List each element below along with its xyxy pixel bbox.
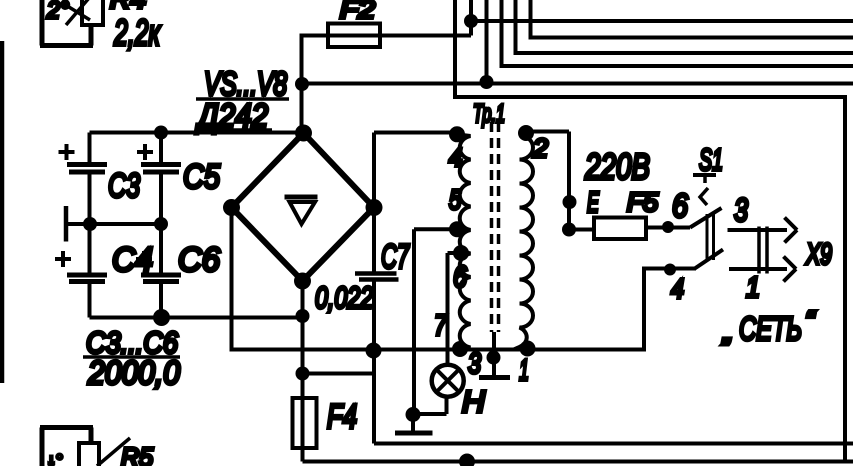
fraction line <box>83 355 180 359</box>
svg-text:3: 3 <box>734 192 748 228</box>
pin 5 dot <box>449 221 465 237</box>
transformer core dashed lines <box>492 122 499 332</box>
svg-text:С3: С3 <box>108 167 140 205</box>
junction dot bridge left <box>223 199 240 216</box>
resistor R5 arrow <box>97 438 130 466</box>
svg-text:0,022: 0,022 <box>315 280 373 315</box>
svg-text:Е: Е <box>587 187 599 219</box>
capacitor C5 plates <box>141 165 181 173</box>
svg-text:F2: F2 <box>340 0 375 24</box>
wire capacitor top line <box>90 131 304 135</box>
junction dot bridge top <box>295 125 312 142</box>
wire top bus V5 <box>516 0 853 53</box>
junction dot (467,461.5) <box>459 454 475 466</box>
switch arm 1 <box>690 208 722 228</box>
svg-text:5: 5 <box>449 184 461 215</box>
svg-text:4: 4 <box>449 144 462 172</box>
wire bridge-top to right edge <box>302 82 853 86</box>
svg-text:С7: С7 <box>381 238 410 276</box>
junction dot (302,84) <box>295 77 309 91</box>
junction dot (486.5,82) <box>480 75 494 89</box>
plus sign C5 <box>137 144 153 160</box>
node E dot <box>563 195 577 209</box>
corner dot <box>562 223 576 237</box>
junction dot (302.5,373.5) <box>296 367 310 381</box>
arrowhead 1 <box>784 257 797 282</box>
wire stub to C7 line <box>303 372 375 376</box>
plus sign C3 <box>59 144 75 160</box>
wire middle line with terminal <box>66 222 161 226</box>
capacitor C6 plates <box>141 275 181 282</box>
terminal bar <box>64 206 69 242</box>
svg-text:S1: S1 <box>699 142 723 177</box>
svg-text:“: “ <box>805 305 816 336</box>
svg-text:6: 6 <box>672 187 689 224</box>
svg-text:С6: С6 <box>178 241 220 279</box>
wire bridge right vertical with C7 <box>374 133 853 444</box>
wire top bus V3 <box>485 0 489 82</box>
wire top bus V4 <box>502 0 853 66</box>
junction dot (161.5,317.5) <box>153 309 170 326</box>
wire lamp bottom <box>413 397 447 415</box>
resistor R4 arrow cross <box>64 0 90 25</box>
capacitor C3 plates <box>67 165 107 173</box>
wire cap bottom line <box>90 316 303 320</box>
junction dot (161,132.5) <box>154 126 168 140</box>
pin 2 dot <box>518 125 534 141</box>
wire bridge bottom vertical to F4 and bottom line <box>303 281 853 462</box>
wire cap left vertical <box>88 133 92 318</box>
wire cap right vertical <box>159 133 163 318</box>
node 4 dot <box>664 264 676 276</box>
switch actuator stem <box>700 175 708 205</box>
svg-text:F4: F4 <box>327 398 357 436</box>
fuse F5 <box>594 218 646 240</box>
resistor R4 body <box>82 0 103 25</box>
pin 4 dot <box>449 126 465 142</box>
fuse F2 <box>328 24 380 48</box>
svg-text:R5: R5 <box>121 442 154 466</box>
transformer left winding <box>457 134 471 348</box>
junction dot (161,224) <box>154 217 168 231</box>
enclosure box R4 (top-left, cut at top) <box>40 0 93 46</box>
wire top bus V6 <box>531 0 853 38</box>
node 6 dot <box>662 221 674 233</box>
pin 5 wire <box>414 229 457 414</box>
wire E to F5 <box>569 228 596 232</box>
label underline <box>196 128 272 132</box>
wire F5 to switch <box>646 226 690 230</box>
label underline <box>196 97 289 101</box>
transformer right winding <box>520 133 534 348</box>
svg-text:СЕТЬ: СЕТЬ <box>739 310 802 347</box>
wire F2 line <box>302 36 472 134</box>
svg-text:Х9: Х9 <box>805 238 832 271</box>
ground symbol transformer <box>492 332 496 376</box>
plus sign C6 <box>136 251 152 267</box>
svg-text:„: „ <box>722 316 732 347</box>
diode symbol inside bridge <box>285 195 318 200</box>
svg-text:2: 2 <box>532 133 549 163</box>
switch coupler bars <box>707 214 714 260</box>
junction dot bridge right <box>366 199 383 216</box>
switch arm 2 <box>694 250 723 270</box>
capacitor C7 plates <box>355 274 399 280</box>
svg-text:1: 1 <box>519 354 529 387</box>
connector X9 wire 1 <box>729 267 787 271</box>
svg-text:2°: 2° <box>46 0 69 24</box>
wire left-edge vertical <box>0 41 4 383</box>
junction dot (471,21) <box>464 14 478 28</box>
ground symbol lamp <box>411 415 415 432</box>
connector bars <box>759 227 767 274</box>
wire top bus V1 (bridge right loop) <box>455 0 845 462</box>
svg-text:F5: F5 <box>627 187 659 217</box>
switch S1 underline <box>693 173 716 177</box>
junction dot (302.5,316) <box>296 309 310 323</box>
diode bridge VS5-V8 diamond <box>232 133 375 281</box>
svg-text:7: 7 <box>434 310 448 342</box>
junction dot (373.5,350.5) <box>366 343 382 359</box>
svg-text:6: 6 <box>453 259 468 294</box>
connector X9 wire 3 <box>728 228 788 232</box>
pin 6 wire <box>448 253 462 365</box>
pin 6 dot <box>453 245 469 261</box>
lamp cross <box>436 369 459 392</box>
junction dot (90,224) <box>83 217 97 231</box>
pin 2 wire <box>526 132 569 230</box>
plus sign C4 <box>55 251 71 267</box>
junction dot bridge bottom <box>294 273 311 290</box>
wire top bus V2 + H1 <box>471 0 853 36</box>
svg-text:4: 4 <box>671 273 684 304</box>
svg-text:С5: С5 <box>183 158 220 196</box>
svg-text:2000,0: 2000,0 <box>87 354 180 391</box>
resistor R5 body <box>79 443 99 466</box>
svg-text:1: 1 <box>746 272 760 304</box>
svg-text:Н: Н <box>462 384 486 419</box>
svg-text:↓°: ↓° <box>47 451 63 466</box>
junction dot pin1 <box>520 341 536 357</box>
enclosure box R5 (bottom-left, cut at bottom) <box>40 428 93 466</box>
fuse F4 <box>293 398 317 448</box>
junction dot (413,414.5) <box>406 407 421 422</box>
svg-text:2,2к: 2,2к <box>113 12 161 53</box>
junction dot pin7 <box>452 341 468 357</box>
svg-text:220В: 220В <box>584 146 650 187</box>
capacitor C4 plates <box>67 275 107 282</box>
lamp H circle <box>432 365 464 397</box>
pin 4 wire <box>374 131 457 135</box>
wire ground line (bridge left to switch) <box>232 208 697 350</box>
arrowhead 3 <box>785 218 798 243</box>
